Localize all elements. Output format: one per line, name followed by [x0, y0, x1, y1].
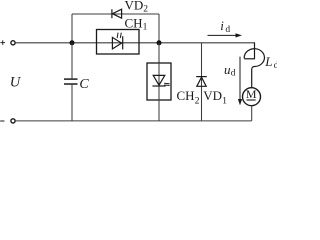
capacitor C: [64, 79, 78, 84]
wire: capacitor bottom riser: [71, 84, 73, 121]
wire: VD1 branch riser: [201, 43, 203, 121]
wire: CH2 bottom riser: [158, 100, 160, 121]
wire: motor to bottom: [251, 106, 253, 121]
box of chopper CH2: [147, 63, 171, 100]
thyristor CH2: [152, 75, 169, 86]
svg-text:i: i: [220, 18, 224, 33]
svg-text:L: L: [264, 54, 272, 69]
inductor L_d: [244, 42, 264, 88]
diode VD2: [112, 9, 122, 18]
thyristor CH1: [112, 33, 122, 50]
node junction dot left: [70, 40, 75, 45]
minus terminal sign: [0, 120, 4, 122]
wire: right riser of top branch: [158, 14, 160, 43]
wire: top main horizontal: [15, 42, 254, 44]
diode VD1: [196, 77, 207, 87]
voltage arrow u_d: [238, 57, 242, 106]
svg-text:U: U: [10, 74, 22, 90]
current arrow i_d: [208, 33, 243, 37]
wire: CH2 branch riser: [158, 43, 160, 63]
motor M circle: [243, 88, 261, 106]
plus terminal circle: [11, 41, 15, 45]
svg-text:CH2: CH2: [177, 88, 200, 107]
wire: left riser to top branch: [71, 14, 73, 43]
svg-text:d: d: [225, 25, 230, 35]
svg-text:VD1: VD1: [203, 88, 227, 107]
box of chopper CH1: [97, 30, 140, 55]
wire through CH2 box: [158, 63, 160, 100]
svg-text:d: d: [274, 61, 277, 71]
svg-text:d: d: [231, 69, 236, 79]
node junction dot right: [157, 40, 162, 45]
minus terminal circle: [11, 119, 15, 123]
svg-text:C: C: [79, 77, 89, 92]
wire: top branch horizontal: [72, 13, 159, 15]
svg-text:M: M: [246, 87, 257, 101]
wire: capacitor top riser: [71, 43, 73, 79]
motor underline: [247, 99, 256, 101]
svg-text:VD2: VD2: [125, 0, 149, 15]
plus terminal sign: [0, 40, 5, 45]
wire: bottom main horizontal: [15, 120, 252, 122]
